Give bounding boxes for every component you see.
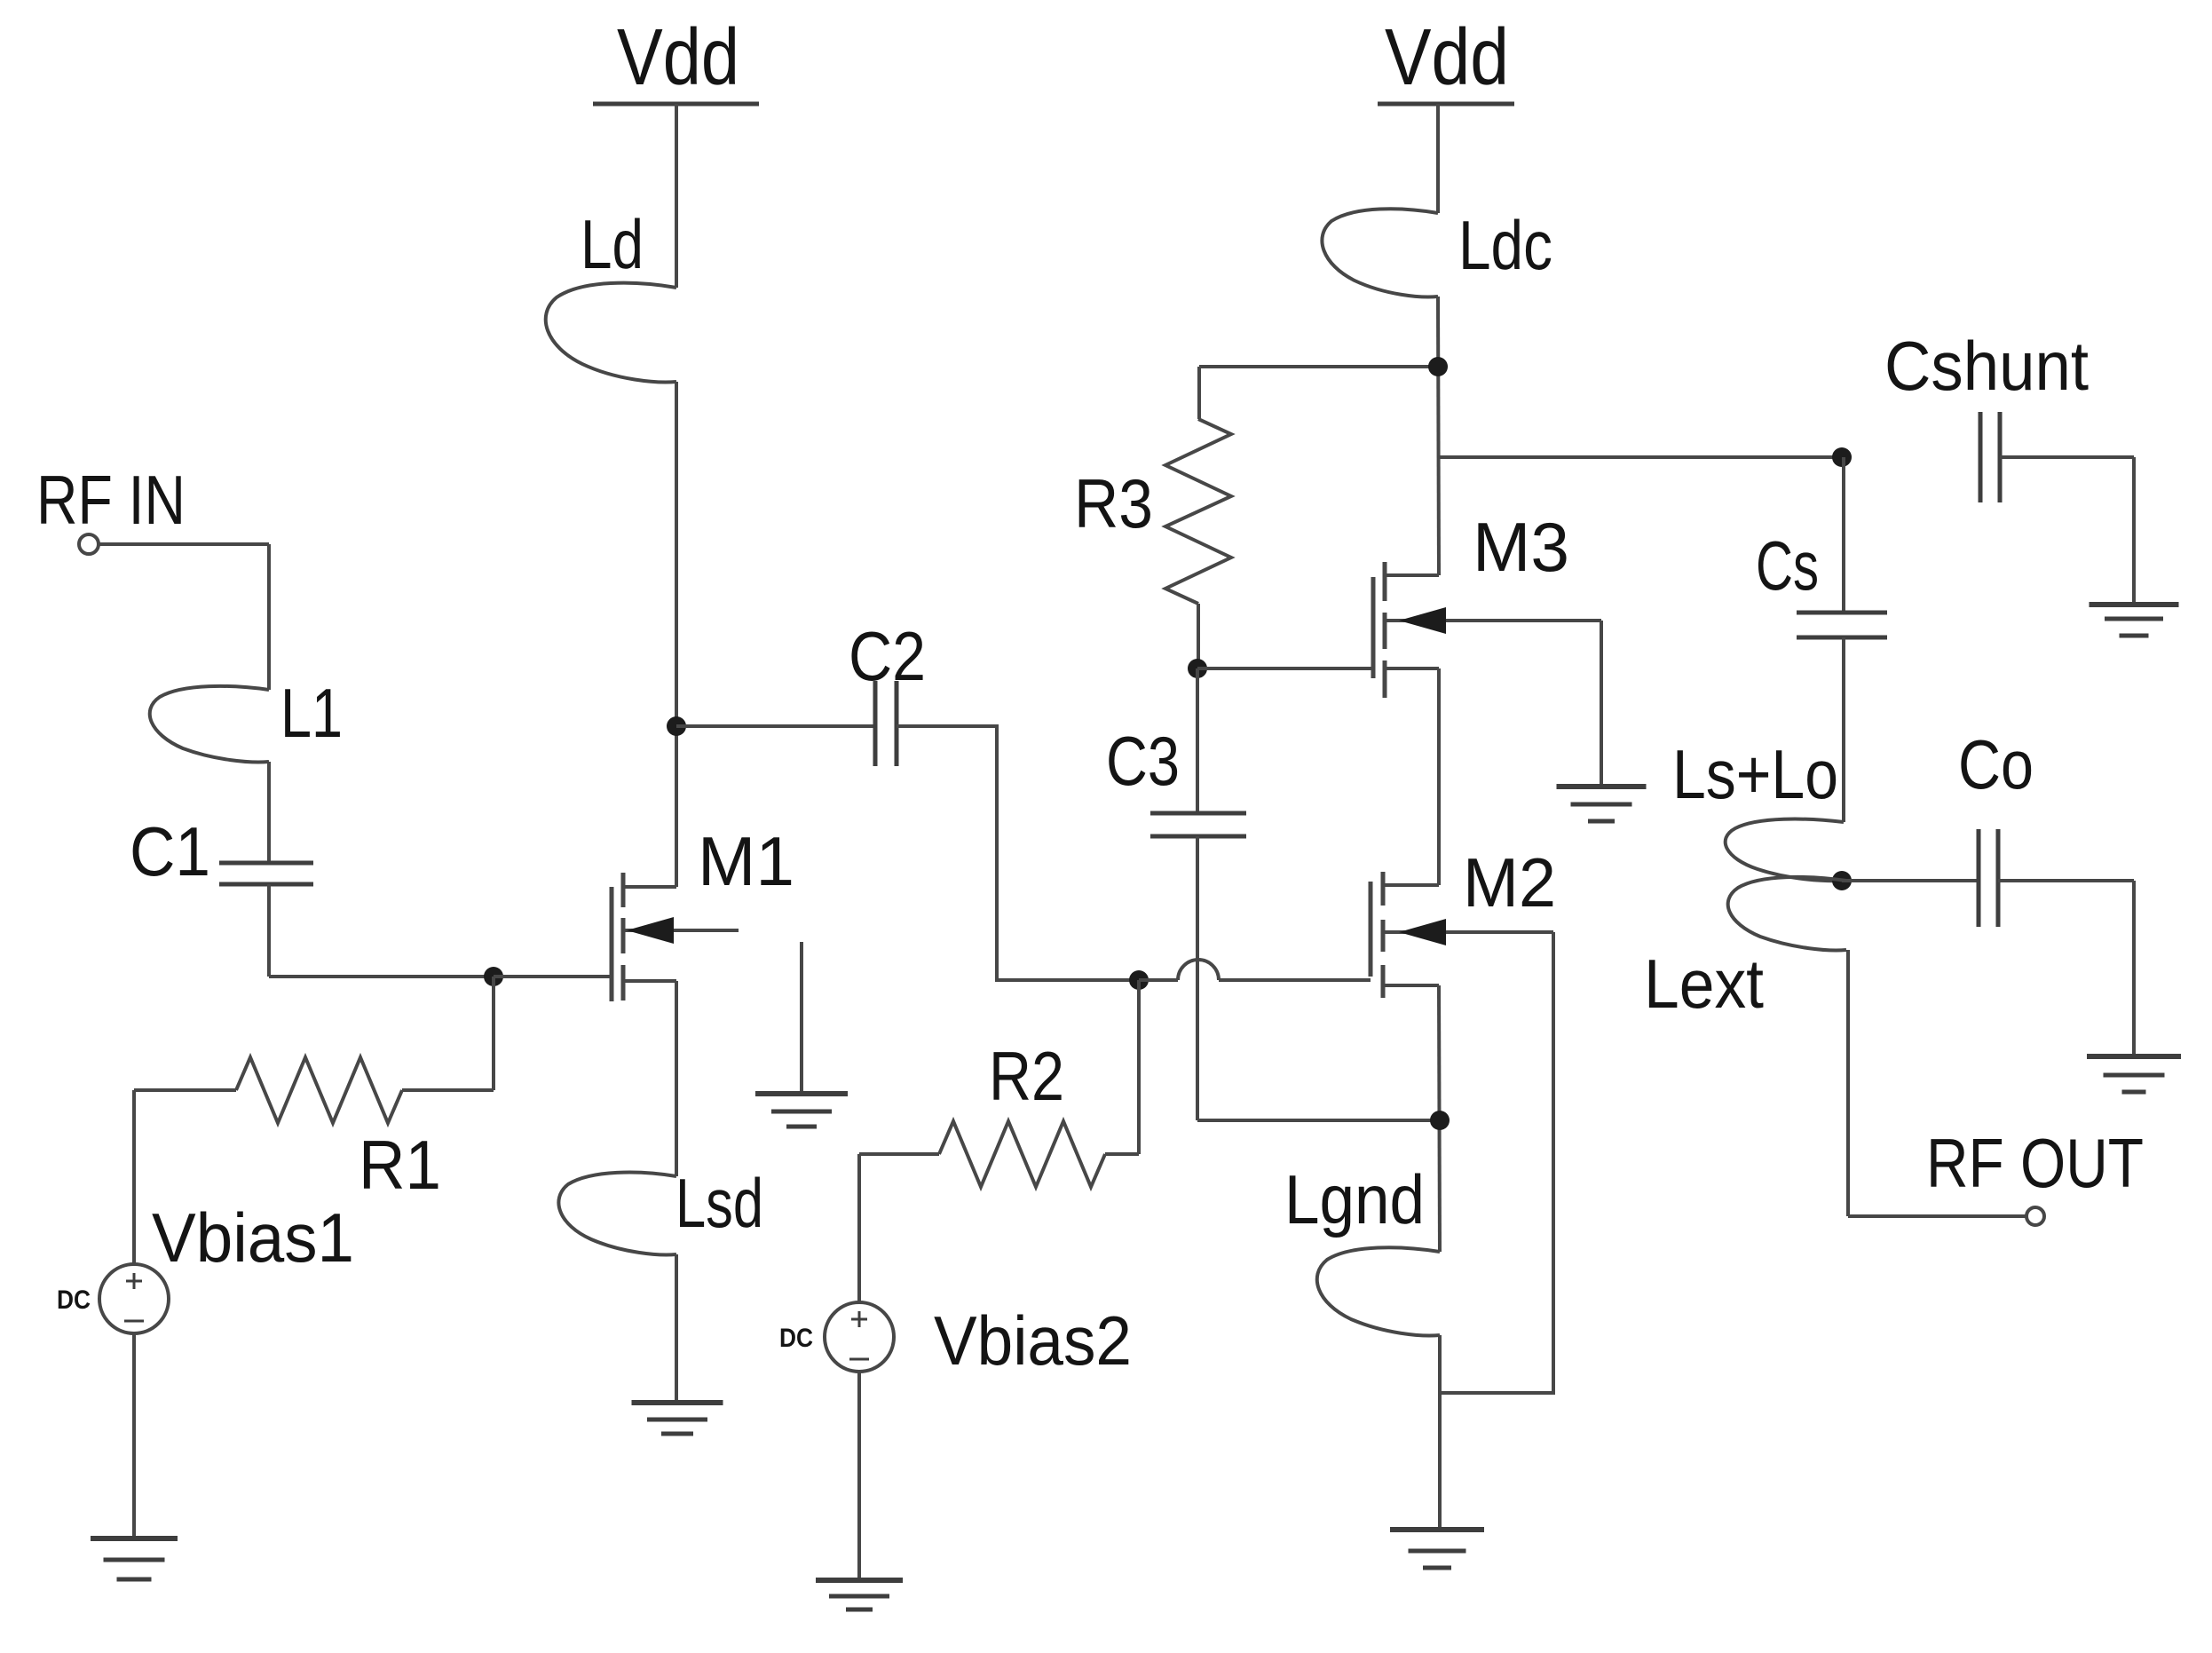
wire	[494, 975, 612, 978]
wire	[1600, 621, 1603, 787]
capacitor Co	[1977, 829, 1981, 927]
ground	[800, 942, 803, 1094]
svg-text:Ld: Ld	[581, 205, 644, 283]
power Vdd bar	[1378, 102, 1514, 107]
svg-text:Cs: Cs	[1756, 526, 1819, 605]
ground	[632, 1400, 723, 1405]
wire	[857, 1372, 861, 1580]
node gate M1	[484, 967, 503, 986]
wire	[859, 1152, 939, 1156]
terminal RF OUT	[2026, 1207, 2044, 1225]
svg-text:C1: C1	[130, 812, 210, 890]
source Vbias2	[825, 1302, 894, 1372]
svg-text:Vbias2: Vbias2	[934, 1301, 1132, 1380]
svg-text:RF IN: RF IN	[36, 461, 186, 539]
wire	[132, 1090, 136, 1264]
svg-text:Co: Co	[1958, 725, 2034, 803]
inductor Ld	[546, 283, 676, 383]
wire	[492, 977, 495, 1090]
wire	[402, 1088, 494, 1092]
capacitor Cshunt	[1979, 412, 1983, 502]
wire	[1196, 836, 1199, 1120]
svg-text:M3: M3	[1473, 508, 1569, 586]
wire	[1219, 978, 1371, 982]
wire	[1842, 457, 1845, 611]
node output	[1832, 871, 1852, 890]
svg-text:Lext: Lext	[1644, 945, 1764, 1023]
wire	[2000, 455, 2134, 459]
wire	[1842, 879, 1979, 882]
wire	[1437, 668, 1441, 885]
wire	[2132, 457, 2136, 605]
wire	[1846, 950, 1850, 1216]
svg-text:Vbias1: Vbias1	[152, 1198, 354, 1277]
ground	[1557, 784, 1647, 789]
wire	[1440, 932, 1553, 1393]
inductor Ls+Lo	[1726, 819, 1844, 882]
wire	[1137, 980, 1141, 1154]
svg-text:R1: R1	[359, 1126, 441, 1204]
wire	[269, 975, 494, 978]
capacitor Cs	[1797, 611, 1887, 615]
node Cshunt Cs	[1832, 447, 1852, 467]
svg-text:R2: R2	[989, 1037, 1064, 1115]
node drain M1	[667, 716, 686, 736]
wire	[1439, 985, 1440, 1252]
svg-text:Ldc: Ldc	[1458, 206, 1552, 284]
wire	[267, 884, 271, 977]
wire	[134, 1088, 236, 1092]
wire	[1842, 637, 1845, 822]
svg-text:Vdd: Vdd	[617, 13, 739, 102]
wire hop	[1178, 960, 1219, 980]
transistor M3	[1371, 577, 1376, 678]
svg-text:M1: M1	[698, 822, 794, 900]
svg-text:RF OUT: RF OUT	[1926, 1124, 2144, 1202]
transistor M1	[610, 887, 614, 1001]
inductor Lsd	[558, 1173, 676, 1255]
source Vbias1	[99, 1264, 169, 1333]
resistor R2	[939, 1121, 1105, 1187]
capacitor C2	[873, 681, 878, 766]
wire	[1998, 879, 2134, 882]
svg-text:C3: C3	[1106, 722, 1180, 800]
svg-text:L1: L1	[280, 674, 343, 752]
svg-text:Vdd: Vdd	[1385, 13, 1509, 102]
svg-text:Lgnd: Lgnd	[1284, 1160, 1425, 1238]
svg-text:R3: R3	[1074, 464, 1153, 542]
power Vdd bar	[593, 102, 759, 107]
wire	[1438, 297, 1439, 575]
wire	[676, 724, 875, 728]
resistor R3	[1165, 419, 1231, 604]
svg-text:M2: M2	[1463, 843, 1556, 921]
svg-text:DC: DC	[57, 1285, 91, 1315]
wire	[1199, 365, 1438, 368]
wire	[99, 542, 269, 546]
svg-text:DC: DC	[779, 1324, 813, 1353]
terminal RF IN	[79, 534, 99, 554]
ground	[1390, 1527, 1484, 1532]
wire	[132, 1333, 136, 1538]
inductor L1	[150, 686, 269, 763]
wire	[1197, 604, 1200, 668]
wire	[267, 762, 271, 861]
svg-text:Cshunt: Cshunt	[1884, 327, 2089, 405]
wire	[857, 1154, 861, 1302]
wire	[897, 726, 1139, 980]
svg-text:Lsd: Lsd	[675, 1164, 763, 1242]
wire	[675, 981, 678, 1176]
wire	[1196, 668, 1199, 813]
ground	[91, 1536, 178, 1541]
inductor Ldc	[1322, 209, 1438, 297]
inductor Lgnd	[1317, 1247, 1440, 1335]
capacitor C1	[219, 861, 313, 866]
ground	[816, 1578, 903, 1583]
ground	[2090, 602, 2179, 607]
wire	[675, 104, 678, 288]
wire	[675, 1254, 678, 1403]
inductor Lext	[1728, 877, 1846, 951]
wire	[1197, 1119, 1440, 1122]
ground	[2087, 1054, 2181, 1059]
node R2 gate	[1129, 970, 1149, 990]
capacitor C3	[1150, 811, 1246, 816]
transistor M2	[1369, 882, 1373, 977]
wire	[1197, 667, 1373, 670]
resistor R1	[236, 1057, 402, 1123]
wire	[1105, 1152, 1139, 1156]
svg-text:C2: C2	[849, 617, 926, 695]
wire	[1848, 1214, 2026, 1218]
node Ldc M3	[1428, 357, 1448, 376]
wire	[1436, 104, 1440, 213]
wire	[1139, 978, 1178, 982]
svg-text:Ls+Lo: Ls+Lo	[1672, 735, 1838, 813]
wire	[675, 382, 678, 887]
wire	[267, 544, 271, 690]
wire	[1438, 1335, 1442, 1530]
wire	[1439, 455, 1842, 459]
wire	[1197, 367, 1201, 419]
node R3 C3 gate M3	[1188, 659, 1207, 678]
node C3 source M2	[1430, 1111, 1450, 1130]
wire	[2132, 881, 2136, 1056]
